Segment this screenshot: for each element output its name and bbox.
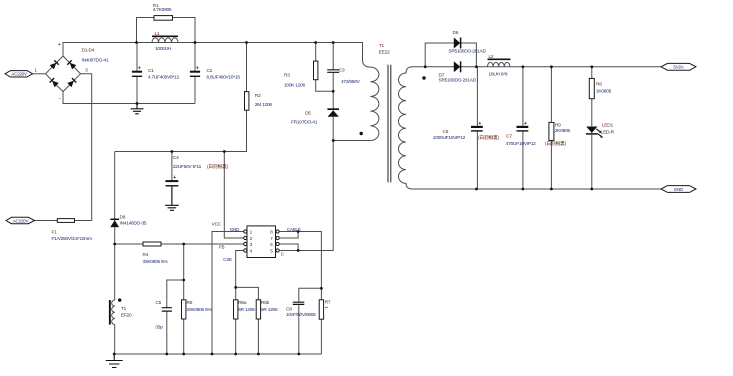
svg-text:R5: R5 bbox=[187, 300, 193, 306]
svg-text:-: - bbox=[59, 96, 61, 102]
svg-text:C2: C2 bbox=[207, 68, 213, 74]
svg-text:C4: C4 bbox=[173, 155, 179, 161]
svg-text:20K0805 5%: 20K0805 5% bbox=[187, 307, 213, 313]
svg-text:L2: L2 bbox=[489, 54, 494, 60]
svg-text:FR107DO-41: FR107DO-41 bbox=[291, 119, 318, 125]
svg-text:2M 1206: 2M 1206 bbox=[255, 102, 272, 108]
svg-text:**: ** bbox=[325, 305, 329, 311]
svg-text:R7: R7 bbox=[325, 300, 331, 306]
svg-text:+: + bbox=[524, 121, 527, 127]
svg-text:D5: D5 bbox=[305, 110, 311, 116]
svg-text:EE22: EE22 bbox=[379, 50, 390, 56]
svg-text:10UH 6*8: 10UH 6*8 bbox=[489, 72, 508, 78]
svg-text:SR5100DO-201AD: SR5100DO-201AD bbox=[439, 77, 477, 83]
svg-text:5V2A: 5V2A bbox=[673, 65, 683, 70]
svg-text:6.8UF400V10*16: 6.8UF400V10*16 bbox=[207, 74, 241, 80]
svg-text:D6: D6 bbox=[453, 30, 459, 36]
svg-text:C8: C8 bbox=[286, 306, 292, 312]
svg-text:5R 1206: 5R 1206 bbox=[238, 307, 255, 313]
svg-text:+: + bbox=[58, 42, 61, 48]
svg-text:1K0805: 1K0805 bbox=[596, 88, 612, 94]
svg-text:2K0805: 2K0805 bbox=[555, 128, 571, 134]
svg-text:R9: R9 bbox=[555, 123, 561, 129]
svg-text:C5: C5 bbox=[155, 300, 161, 306]
svg-text:4.7UF400V8*12: 4.7UF400V8*12 bbox=[148, 74, 179, 80]
svg-text:R8: R8 bbox=[596, 82, 602, 88]
svg-text:GND: GND bbox=[230, 227, 240, 232]
svg-text:+: + bbox=[138, 66, 141, 72]
svg-text:R2: R2 bbox=[255, 93, 261, 99]
svg-text:1000UH: 1000UH bbox=[155, 46, 172, 52]
svg-text:IN4007DO-41: IN4007DO-41 bbox=[82, 57, 109, 63]
svg-text:LED1: LED1 bbox=[602, 123, 614, 129]
svg-text:CSE: CSE bbox=[223, 257, 232, 262]
svg-text:100K 1206: 100K 1206 bbox=[284, 82, 306, 88]
svg-text:+: + bbox=[196, 66, 199, 72]
svg-text:C1: C1 bbox=[148, 68, 154, 74]
svg-text:10nF/50V/0805: 10nF/50V/0805 bbox=[286, 312, 316, 318]
svg-text:R4: R4 bbox=[143, 252, 149, 258]
svg-text:LED-R: LED-R bbox=[601, 129, 615, 135]
svg-text:VCC: VCC bbox=[212, 222, 222, 227]
svg-text:D8: D8 bbox=[120, 214, 126, 220]
svg-text:470UF10VIP12: 470UF10VIP12 bbox=[506, 141, 536, 147]
svg-text:(白羽根裏): (白羽根裏) bbox=[207, 163, 229, 170]
svg-text:(白羽根裏): (白羽根裏) bbox=[478, 134, 500, 141]
svg-text:IN4148DO-35: IN4148DO-35 bbox=[120, 220, 147, 226]
svg-text:AC220V: AC220V bbox=[11, 72, 27, 77]
svg-text:1000UF10VIP12: 1000UF10VIP12 bbox=[433, 135, 466, 141]
svg-text:CABLE: CABLE bbox=[287, 227, 301, 232]
svg-text:+: + bbox=[173, 175, 176, 181]
svg-text:T1: T1 bbox=[121, 306, 127, 312]
svg-text:GND: GND bbox=[674, 187, 684, 192]
svg-text:C3: C3 bbox=[339, 68, 345, 74]
svg-text:4.7K0805: 4.7K0805 bbox=[153, 7, 172, 13]
svg-text:F1: F1 bbox=[52, 230, 58, 236]
svg-text:T1: T1 bbox=[379, 43, 385, 49]
svg-text:AC220V: AC220V bbox=[13, 218, 29, 223]
svg-text:FB: FB bbox=[219, 245, 225, 250]
svg-text:+: + bbox=[478, 121, 481, 127]
svg-text:C6: C6 bbox=[443, 129, 449, 135]
svg-text:R3: R3 bbox=[284, 73, 290, 79]
svg-text:D1-D4: D1-D4 bbox=[82, 48, 95, 54]
svg-text:C7: C7 bbox=[506, 133, 512, 139]
svg-text:EF20: EF20 bbox=[121, 312, 132, 318]
svg-text:472/650V: 472/650V bbox=[341, 79, 361, 85]
svg-text:R6b: R6b bbox=[261, 300, 270, 306]
svg-text:5R 1206: 5R 1206 bbox=[261, 307, 278, 313]
svg-text:F1A/250V/3.6*10mm: F1A/250V/3.6*10mm bbox=[52, 236, 93, 242]
svg-text:(白羽根裏): (白羽根裏) bbox=[545, 140, 567, 147]
svg-text:R6a: R6a bbox=[238, 300, 247, 306]
svg-text:33p: 33p bbox=[155, 325, 163, 331]
svg-text:L1: L1 bbox=[155, 31, 160, 37]
svg-text:SR5100DO-201AD: SR5100DO-201AD bbox=[448, 49, 486, 55]
svg-text:33K0805 5%: 33K0805 5% bbox=[143, 259, 169, 265]
svg-text:22UF50V 5*11: 22UF50V 5*11 bbox=[173, 164, 202, 170]
